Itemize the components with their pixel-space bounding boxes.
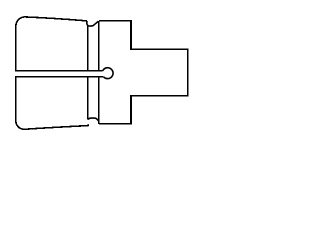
top relief groove dip [87,21,99,26]
bottom relief groove bump [88,118,99,121]
stepped hub outline: neck block and shaft [99,21,188,124]
groove edge line upper segment [87,26,89,72]
body lower-left outline: left edge, rounded corner, tapered bottom edge, end tick [16,76,88,129]
body upper-left outline: left edge, rounded corner, tapered top edge [16,17,87,72]
body right face line upper segment [98,21,100,72]
round relief hole at slot end [103,68,113,79]
body right face line lower segment [98,76,100,124]
slot upper line [15,70,102,72]
slot lower line [15,76,104,78]
groove edge line lower segment [87,76,89,119]
